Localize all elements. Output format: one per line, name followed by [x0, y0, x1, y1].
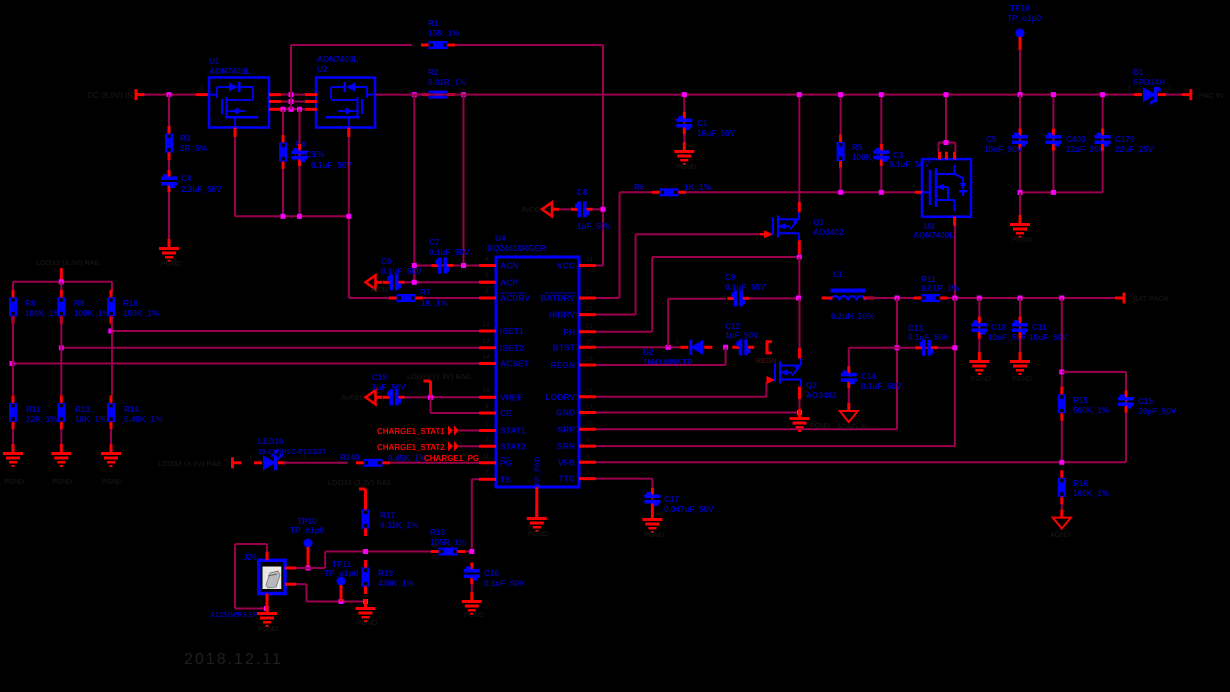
svg-text:0.1uF_50V: 0.1uF_50V [311, 161, 352, 170]
svg-text:C1: C1 [697, 119, 708, 128]
svg-text:0.1uF_50V: 0.1uF_50V [908, 333, 949, 342]
svg-text:BTST: BTST [553, 342, 576, 352]
svg-text:R7: R7 [420, 288, 431, 297]
svg-text:R240: R240 [340, 453, 360, 462]
wire ACSET line [12, 363, 479, 365]
svg-text:U2: U2 [317, 65, 328, 74]
testpoint TP10 bottom [304, 539, 313, 548]
inductor L1 [831, 289, 866, 293]
svg-text:R19: R19 [378, 569, 393, 578]
wire ISET2 line [61, 347, 479, 349]
wire C16 ground [471, 584, 473, 600]
svg-text:R8: R8 [25, 299, 36, 308]
node R6 R5 [838, 190, 843, 195]
wire ACN to pin [479, 264, 496, 267]
svg-text:U3: U3 [924, 222, 935, 231]
svg-text:0.1uF_50V: 0.1uF_50V [429, 248, 470, 257]
node R19 bottom [363, 599, 368, 604]
svg-text:100K_1%: 100K_1% [1073, 489, 1110, 498]
svg-text:1uF_50V: 1uF_50V [725, 331, 759, 340]
testpoint TP10 top [1016, 29, 1025, 38]
ic U4 BQ24610RGER [496, 257, 579, 487]
wire HIDRV [596, 314, 636, 316]
port REGN [766, 340, 769, 354]
svg-text:C10: C10 [991, 323, 1006, 332]
node R15 bottom [1059, 460, 1064, 465]
capacitor C5 gate [299, 109, 301, 216]
svg-text:AO3402: AO3402 [806, 391, 837, 400]
svg-text:19: 19 [586, 357, 593, 363]
wire battery rail [947, 297, 1124, 299]
svg-text:D2: D2 [643, 348, 654, 357]
ground AGND R16 [1060, 510, 1063, 518]
node C1 rail [682, 92, 687, 97]
wire PH [596, 331, 652, 333]
svg-text:AO3402: AO3402 [813, 228, 844, 237]
wire R12 to ground [12, 429, 14, 452]
wire C15 to VREF pin [404, 396, 479, 398]
resistor R6 [660, 188, 679, 196]
node Q2 source gnd [797, 410, 802, 415]
wire LED to R240 [284, 462, 348, 464]
resistor R16 [1058, 478, 1066, 497]
svg-text:STAT1: STAT1 [500, 426, 526, 436]
svg-text:EP_PAD: EP_PAD [533, 456, 542, 486]
node C403 rail [1051, 92, 1056, 97]
svg-text:L1: L1 [833, 270, 843, 279]
svg-text:ACP: ACP [500, 277, 518, 287]
svg-text:24: 24 [586, 258, 593, 264]
ground PGND J26 [266, 604, 269, 612]
wire R14 to ground [110, 429, 112, 452]
capacitor C11 [1019, 298, 1021, 360]
svg-text:VFB: VFB [558, 457, 575, 467]
svg-text:0.01R_1%: 0.01R_1% [428, 78, 467, 87]
wire R8 R12 link [12, 316, 14, 364]
svg-text:C13: C13 [908, 324, 923, 333]
resistor R17 [364, 500, 367, 510]
wire R16 ground [1061, 504, 1063, 518]
resistor R1 [291, 44, 412, 46]
wire R2 left sense drop [413, 95, 415, 283]
svg-text:5: 5 [936, 144, 939, 150]
wire DC input to U1 [144, 94, 209, 96]
ground AGND C14 [847, 403, 850, 411]
wire C13 row [849, 347, 955, 349]
svg-text:18: 18 [586, 389, 593, 395]
node VCC C8 [601, 207, 606, 212]
capacitor C17 [651, 488, 654, 495]
svg-text:DC (9.0V) IN: DC (9.0V) IN [87, 91, 133, 100]
node TS C16 [469, 549, 474, 554]
wire VFB [596, 461, 1126, 463]
node C179 rail [1100, 92, 1105, 97]
connector J26 [285, 567, 325, 569]
wire C6 to ACP pin [404, 281, 479, 283]
svg-text:CE: CE [500, 408, 512, 418]
svg-text:PG: PG [500, 458, 513, 468]
svg-text:C12: C12 [725, 322, 740, 331]
svg-text:C5: C5 [305, 150, 316, 159]
node ACN left [412, 263, 417, 268]
svg-text:C11: C11 [1032, 323, 1047, 332]
testpoint TP11 [337, 577, 346, 586]
resistor R3 [168, 95, 170, 134]
resistor R13 [60, 348, 62, 395]
svg-text:1: 1 [948, 219, 951, 225]
capacitor C12 [732, 346, 739, 349]
wire D1 to port [1166, 94, 1186, 96]
resistor R9 [60, 282, 62, 292]
wire bottom thermistor row [307, 601, 366, 603]
svg-text:PGND: PGND [464, 612, 484, 619]
svg-text:R14: R14 [124, 405, 139, 414]
wire U3 gate [915, 191, 922, 194]
svg-text:SRN: SRN [557, 441, 575, 451]
port LED rail [231, 457, 234, 468]
diode D1 SPD34H [1143, 87, 1156, 102]
svg-text:PGND: PGND [52, 479, 72, 486]
led LED16 [263, 455, 276, 470]
resistor R4 gate pulldown [282, 109, 284, 216]
wire BTST [596, 346, 680, 348]
node gate bus C5 [297, 214, 302, 219]
svg-text:100K_1%: 100K_1% [123, 309, 160, 318]
svg-text:1K_1%: 1K_1% [684, 183, 712, 192]
svg-text:PGND: PGND [528, 531, 548, 538]
svg-text:10: 10 [586, 421, 593, 427]
svg-text:R10: R10 [123, 299, 138, 308]
wire GND pin [596, 412, 800, 414]
svg-text:R9: R9 [74, 299, 85, 308]
svg-text:500K_1%: 500K_1% [1073, 406, 1110, 415]
svg-text:PGND: PGND [258, 626, 278, 633]
svg-text:Q1: Q1 [813, 218, 824, 227]
diode D2 1N4148W-TP [690, 340, 703, 355]
svg-text:TP_o1p0: TP_o1p0 [1007, 14, 1042, 23]
node bus R9 [59, 279, 64, 284]
svg-text:R11: R11 [921, 275, 936, 284]
svg-text:20: 20 [586, 339, 593, 345]
node SRP tap [895, 296, 900, 301]
capacitor C15 fb [1062, 371, 1126, 373]
svg-text:LDO33 (3.3V) RAIL: LDO33 (3.3V) RAIL [158, 459, 223, 468]
wire R2 right sense drop [463, 95, 465, 266]
resistor R18 [439, 548, 458, 556]
wire R240 to PG pin [390, 462, 479, 464]
node BTST [666, 345, 671, 350]
svg-text:ACIN: ACIN [371, 287, 388, 294]
svg-text:C17: C17 [664, 495, 679, 504]
ground PGND C4 [168, 239, 171, 247]
svg-text:R5: R5 [852, 143, 863, 152]
svg-text:C5: C5 [986, 135, 997, 144]
transistor Q2 AO3402 [766, 376, 775, 384]
wire R13 to ground [60, 429, 62, 452]
svg-text:22K_1%: 22K_1% [26, 415, 58, 424]
wire L1 to R11 [865, 297, 914, 299]
svg-text:J26: J26 [243, 553, 257, 562]
wire U2 drain to ACDRV [348, 128, 350, 299]
svg-text:C403: C403 [1066, 135, 1086, 144]
node ISET1 divider [108, 329, 113, 334]
svg-text:PAC IN: PAC IN [1199, 91, 1223, 100]
wire R7 to ACDRV pin [423, 297, 479, 299]
svg-text:1uF_50V: 1uF_50V [372, 383, 406, 392]
capacitor C15 [383, 396, 390, 399]
capacitor C6 [383, 281, 390, 284]
wire TS node row [325, 551, 472, 553]
svg-text:AON7403L: AON7403L [209, 67, 250, 76]
wire C14 ground [848, 388, 850, 411]
wire R9 R13 link [60, 316, 62, 348]
port arrow VREF [366, 390, 376, 404]
svg-text:ISET2: ISET2 [500, 343, 524, 353]
node SRN tap [952, 296, 957, 301]
ic U4 EP pin to ground [535, 487, 538, 516]
wire U3 drain bridge [938, 152, 941, 159]
capacitor C3 [880, 95, 882, 193]
svg-text:PGND: PGND [644, 532, 664, 539]
port battery [1123, 293, 1126, 304]
svg-text:AON7400L: AON7400L [913, 231, 954, 240]
svg-text:SRP: SRP [558, 424, 576, 434]
ground PGND C17 [651, 510, 654, 518]
svg-text:10uF_50V: 10uF_50V [984, 145, 1023, 154]
svg-text:BQ24610RGER: BQ24610RGER [487, 244, 546, 253]
svg-text:22uF_25V: 22uF_25V [1066, 145, 1105, 154]
wire ISET1 line [111, 330, 479, 332]
svg-text:R18: R18 [430, 528, 445, 537]
svg-text:16: 16 [483, 388, 490, 394]
svg-text:CHARGE1_STAT2: CHARGE1_STAT2 [377, 443, 445, 452]
capacitor C1 [683, 95, 685, 150]
svg-text:PGND: PGND [1012, 376, 1032, 383]
svg-text:2018.12.11: 2018.12.11 [184, 651, 283, 668]
svg-text:2R_5%: 2R_5% [180, 144, 208, 153]
node D2 anode [723, 345, 728, 350]
resistor R8 [12, 282, 14, 292]
svg-text:AGND: AGND [1050, 532, 1070, 539]
svg-text:8.45K_1%: 8.45K_1% [388, 454, 427, 463]
svg-text:23: 23 [586, 290, 593, 296]
svg-text:TP11: TP11 [332, 560, 352, 569]
ground PGND R14 [110, 444, 113, 452]
node R15 top [1059, 369, 1064, 374]
svg-text:A1251WR3-2P: A1251WR3-2P [210, 612, 257, 619]
wire SRP [596, 428, 897, 430]
wire main rail U2 to D1 [376, 94, 1139, 96]
node ACN right [461, 263, 466, 268]
svg-text:LED16: LED16 [258, 437, 284, 446]
svg-text:R13: R13 [75, 405, 90, 414]
svg-text:0.01R_1%: 0.01R_1% [921, 284, 960, 293]
svg-text:C6: C6 [381, 257, 392, 266]
wire CE from VREF node [430, 397, 432, 413]
wire REGN [596, 364, 726, 366]
node VREF [428, 395, 433, 400]
svg-text:C179: C179 [1115, 135, 1135, 144]
svg-text:C14: C14 [861, 372, 876, 381]
svg-text:1uF_50V: 1uF_50V [577, 222, 611, 231]
wire gate rows tie vertical [290, 45, 292, 109]
node TP10 J26 [306, 566, 311, 571]
capacitor C179 [1102, 95, 1104, 193]
svg-text:VCC: VCC [557, 261, 575, 271]
svg-text:0.1uF_50V: 0.1uF_50V [889, 160, 930, 169]
wire U3 source down [953, 217, 956, 226]
ground PGND caps [1019, 215, 1022, 223]
svg-text:14: 14 [483, 355, 490, 361]
node C11 tap [1018, 296, 1023, 301]
node C10 tap [977, 296, 982, 301]
svg-text:21: 21 [586, 324, 593, 330]
svg-text:C15: C15 [372, 373, 387, 382]
svg-text:BAT PACK: BAT PACK [1133, 294, 1169, 303]
node PH rail [796, 296, 801, 301]
svg-text:Q2: Q2 [806, 381, 817, 390]
svg-text:10K_1%: 10K_1% [75, 415, 107, 424]
node Q1 drain rail [797, 92, 802, 97]
svg-text:AGND_IN: AGND_IN [837, 424, 868, 431]
svg-text:ACN: ACN [500, 261, 518, 271]
svg-text:GND: GND [556, 408, 575, 418]
svg-text:C9: C9 [725, 273, 736, 282]
svg-text:C3: C3 [893, 151, 904, 160]
svg-text:R12: R12 [26, 405, 41, 414]
port adapter out [1189, 89, 1192, 100]
svg-text:0.1uF_50V: 0.1uF_50V [381, 267, 422, 276]
node ACP [412, 280, 417, 285]
port arrow ACP [366, 275, 376, 289]
svg-text:5.49K_1%: 5.49K_1% [124, 415, 163, 424]
capacitor C10 [978, 298, 980, 360]
svg-text:REGN: REGN [756, 358, 776, 365]
resistor R12 [12, 364, 14, 396]
svg-text:PH: PH [563, 327, 575, 337]
node U3 rail [944, 92, 949, 97]
svg-text:13: 13 [483, 339, 490, 345]
svg-text:HIDRV: HIDRV [549, 310, 576, 320]
wire SRN [596, 445, 955, 447]
svg-text:C4: C4 [181, 174, 192, 183]
svg-text:100K_1%: 100K_1% [25, 309, 62, 318]
resistor R5 [840, 95, 842, 136]
svg-text:STAT2: STAT2 [500, 441, 526, 451]
node R2 left [412, 92, 417, 97]
svg-text:PGND: PGND [676, 164, 696, 171]
capacitor C13 [916, 346, 923, 349]
node VIN junction [167, 92, 172, 97]
node SRN C13 [952, 345, 957, 350]
ground PGND R12 [12, 444, 15, 452]
ground PGND C11 [1019, 352, 1022, 360]
svg-text:R2: R2 [428, 68, 439, 77]
svg-text:430K_1%: 430K_1% [378, 579, 415, 588]
node ACSET divider [10, 361, 15, 366]
node Q1 source PH [797, 255, 802, 260]
resistor R15 [1058, 394, 1066, 413]
svg-text:C8: C8 [577, 188, 588, 197]
resistor R19 [362, 568, 370, 587]
capacitor C403 [1052, 95, 1054, 193]
svg-text:105R_1%: 105R_1% [430, 538, 467, 547]
svg-text:10R_1%: 10R_1% [428, 29, 460, 38]
svg-text:R16: R16 [1073, 479, 1088, 488]
mosfet U2 AON7403L [316, 78, 375, 128]
svg-text:100K_1%: 100K_1% [74, 309, 111, 318]
svg-text:TS: TS [500, 474, 511, 484]
resistor R7 [349, 297, 390, 299]
svg-text:VREF: VREF [500, 392, 523, 402]
wire VCC pin [596, 265, 603, 267]
svg-text:LODRV: LODRV [545, 392, 575, 402]
svg-text:TP_o1p0: TP_o1p0 [324, 569, 359, 578]
mosfet U1 AON7403L [209, 78, 269, 128]
wire TTC [596, 478, 652, 480]
wire gate bus [234, 128, 236, 217]
svg-text:BATDRV: BATDRV [540, 293, 575, 303]
wire BATDRV gate line [620, 191, 915, 193]
svg-text:10uF_50V: 10uF_50V [697, 129, 736, 138]
svg-text:0.1uF_50V: 0.1uF_50V [861, 382, 902, 391]
capacitor C4 [168, 160, 170, 177]
wire R15 chain [1061, 298, 1063, 462]
svg-text:LDO33 (3.3V) RAIL: LDO33 (3.3V) RAIL [36, 258, 101, 267]
wire U1-U2 pin rows [269, 93, 281, 96]
node R17 bottom [363, 549, 368, 554]
svg-text:ACDRV: ACDRV [500, 293, 530, 303]
svg-text:AVREF: AVREF [341, 395, 364, 402]
svg-text:PGND: PGND [971, 376, 991, 383]
svg-text:PGND: PGND [161, 261, 181, 268]
wire C4 to ground [168, 192, 170, 247]
svg-text:TTC: TTC [558, 474, 575, 484]
ground PGND Q2 [798, 409, 801, 417]
node TP11 [339, 599, 344, 604]
svg-text:REGN: REGN [550, 360, 575, 370]
wire R1 to VCC vertical [455, 44, 603, 46]
svg-text:R1: R1 [428, 19, 439, 28]
svg-text:12: 12 [483, 322, 490, 328]
svg-text:7: 7 [950, 144, 953, 150]
node R15 tap [1059, 296, 1064, 301]
wire R10 R14 link [111, 316, 113, 331]
ground PGND C1 [683, 142, 686, 150]
transistor Q1 AO3402 [764, 230, 773, 238]
svg-text:U1: U1 [209, 57, 220, 66]
node ISET2 divider [59, 345, 64, 350]
svg-text:U4: U4 [495, 234, 506, 243]
wire TS down [472, 478, 479, 480]
svg-text:LDO33 (3.3V) RAIL: LDO33 (3.3V) RAIL [328, 478, 393, 487]
ground PGND R13 [60, 444, 63, 452]
svg-text:AVCC: AVCC [521, 207, 540, 214]
node R5 rail [838, 92, 843, 97]
resistor R10 [111, 282, 113, 292]
node TP rail [1018, 92, 1023, 97]
resistor R2 current sense [429, 91, 448, 99]
node gate bus R4 [281, 214, 286, 219]
svg-text:1K_1%: 1K_1% [421, 299, 449, 308]
capacitor C14 [848, 348, 850, 368]
svg-text:11: 11 [483, 454, 490, 460]
mosfet U3 AON7400L [922, 159, 971, 217]
svg-text:CHARGE1_STAT1: CHARGE1_STAT1 [377, 427, 445, 436]
svg-text:ISET1: ISET1 [500, 326, 524, 336]
resistor R11 sense [921, 294, 940, 302]
wire LODRV [596, 396, 766, 398]
